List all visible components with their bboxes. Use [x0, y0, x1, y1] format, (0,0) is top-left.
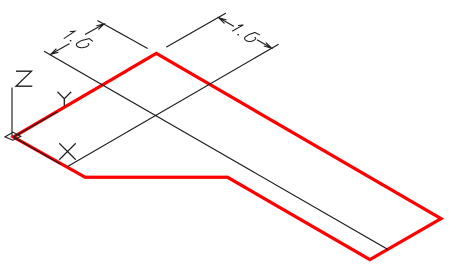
dimension line right segment a: [219, 18, 234, 27]
arrow T4 (right dim lower-right): [264, 43, 272, 49]
arrow T3 (right dim upper-left): [219, 18, 227, 24]
extension line E3 (right dim, from apex up-right through T3): [166, 13, 226, 47]
UCS origin rhombus: [5, 132, 21, 140]
X axis line: [13, 137, 60, 164]
dim text 1.5 left: [64, 31, 93, 48]
arrow T1 (left dim lower-left): [51, 49, 59, 55]
extension line E2 (left dim, from apex up-left through T2): [97, 21, 147, 49]
dim text 1.5 right: [233, 25, 260, 42]
arrow T2 (left dim upper-right): [96, 24, 104, 30]
Z axis line: [11, 88, 13, 137]
dimension line left segment a: [51, 44, 70, 55]
label Y: [58, 92, 72, 106]
Y axis line: [13, 112, 58, 138]
dimension line right segment b: [257, 40, 272, 48]
red outline of L-shaped plate (isometric): [13, 53, 441, 259]
label X: [59, 143, 75, 159]
extension line E4 (right dim, long construction line to lower-left edge): [68, 44, 279, 166]
label Z: [16, 71, 32, 86]
dimension line left segment b: [85, 24, 104, 35]
extension line E1 (left dim, long construction line to lower-right edge): [44, 51, 388, 249]
